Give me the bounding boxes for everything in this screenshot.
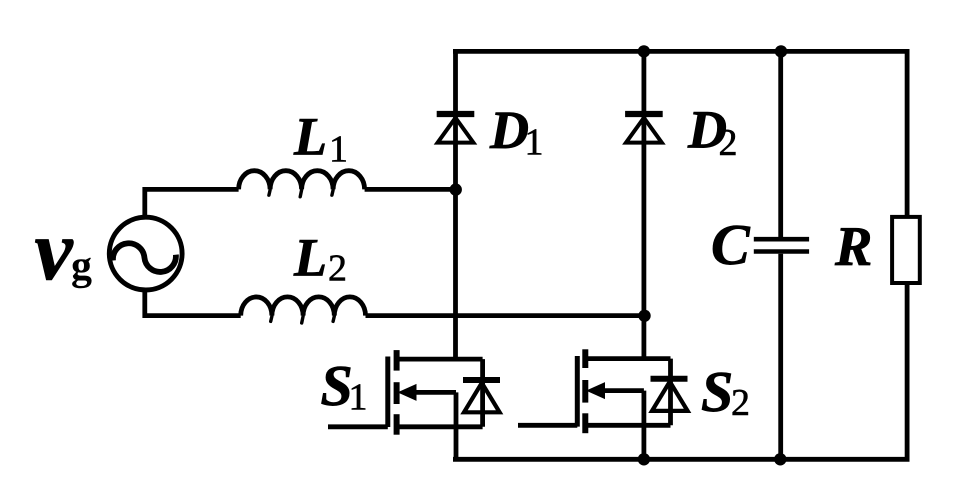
svg-text:L: L <box>293 227 327 287</box>
svg-text:L: L <box>293 107 327 167</box>
svg-text:D: D <box>489 100 529 160</box>
svg-text:1: 1 <box>349 377 368 419</box>
svg-text:2: 2 <box>731 382 750 424</box>
svg-text:S: S <box>701 359 733 424</box>
svg-text:C: C <box>711 212 751 277</box>
svg-text:1: 1 <box>525 122 544 164</box>
svg-text:1: 1 <box>329 129 348 171</box>
svg-text:2: 2 <box>719 122 738 164</box>
svg-text:R: R <box>834 216 872 278</box>
svg-text:2: 2 <box>328 248 347 290</box>
svg-text:v: v <box>35 202 74 298</box>
svg-text:g: g <box>71 243 92 289</box>
